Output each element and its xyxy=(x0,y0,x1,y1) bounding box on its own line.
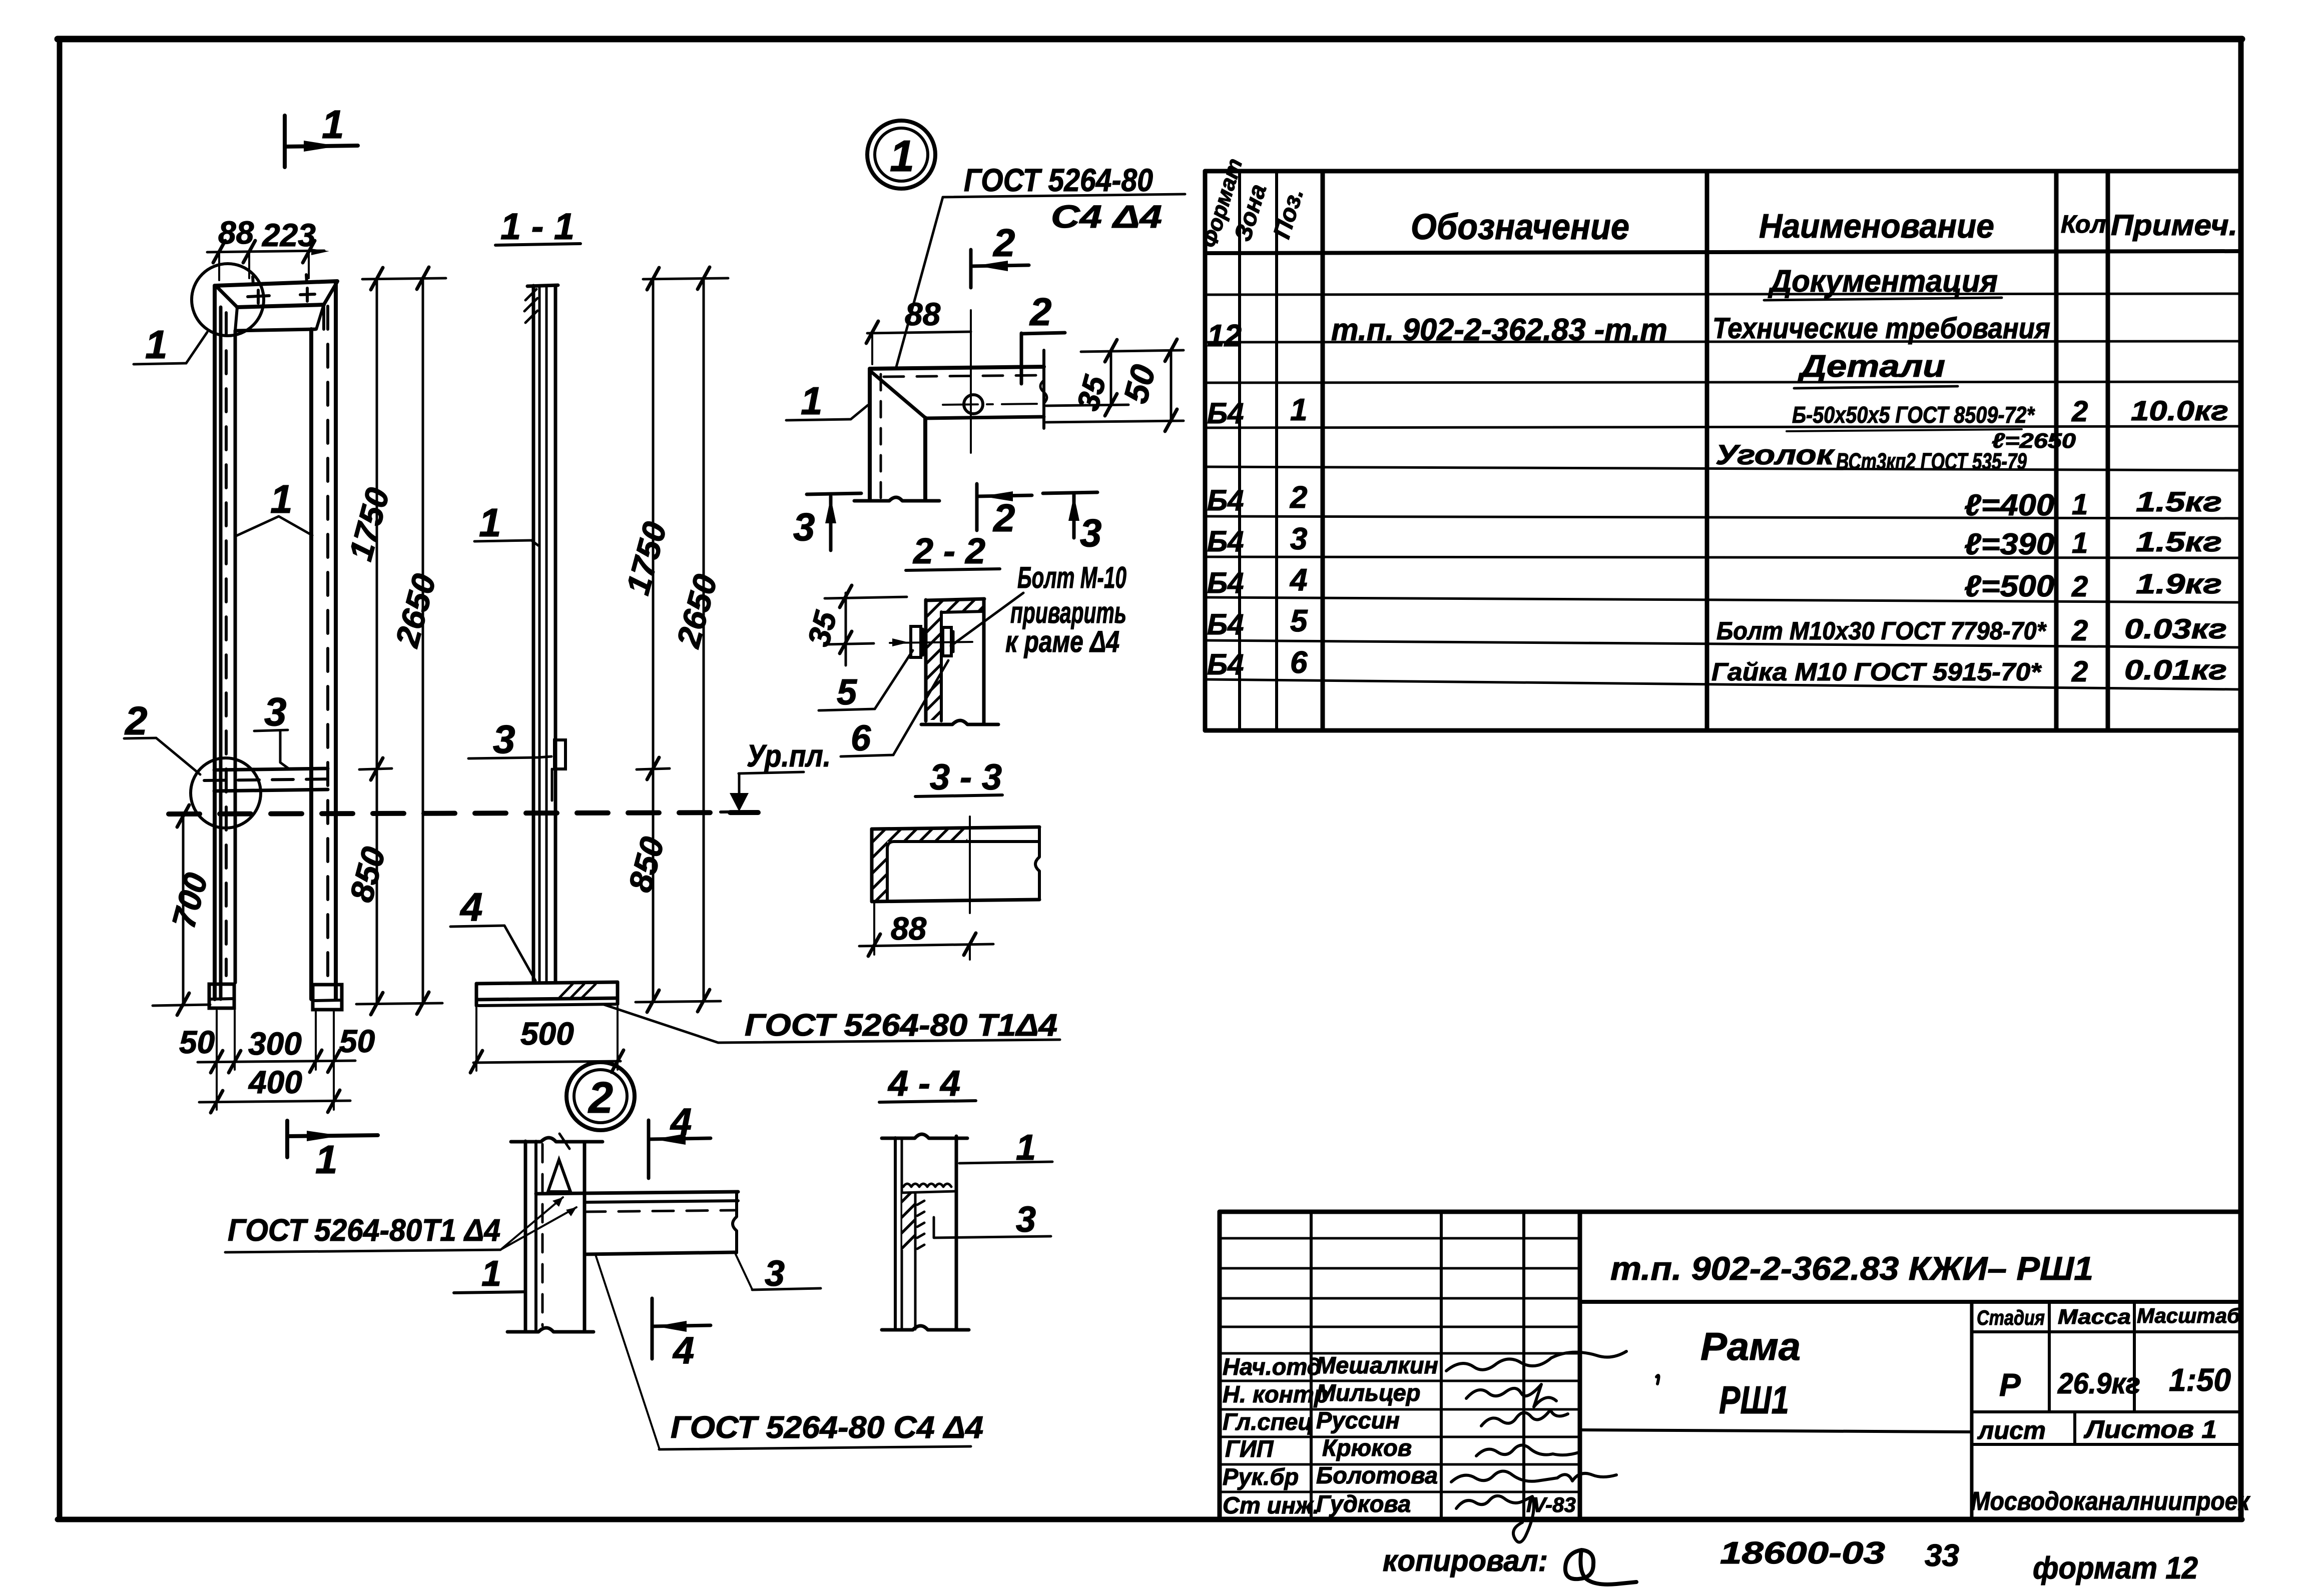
svg-text:2: 2 xyxy=(1290,480,1307,515)
svg-text:1.9кг: 1.9кг xyxy=(2136,568,2222,599)
svg-text:Примеч.: Примеч. xyxy=(2111,209,2237,242)
svg-text:4: 4 xyxy=(672,1329,694,1372)
svg-text:1 - 1: 1 - 1 xyxy=(500,206,574,247)
svg-text:Масштаб: Масштаб xyxy=(2137,1304,2240,1327)
section 4-4: post with angle weld xyxy=(882,1134,969,1330)
svg-text:Гудкова: Гудкова xyxy=(1316,1490,1411,1517)
section 1-1: base plate (item 4) xyxy=(476,982,618,1006)
svg-text:12: 12 xyxy=(1207,319,1242,353)
svg-text:88: 88 xyxy=(905,296,941,332)
svg-text:50: 50 xyxy=(179,1024,215,1060)
svg-text:т.п. 902-2-362.83 КЖИ– РШ1: т.п. 902-2-362.83 КЖИ– РШ1 xyxy=(1610,1250,2093,1287)
front view: top beam (item 1) xyxy=(216,275,337,331)
svg-text:400: 400 xyxy=(248,1064,302,1100)
svg-text:Б4: Б4 xyxy=(1207,397,1244,430)
svg-text:5: 5 xyxy=(837,672,857,712)
detail 1: dimensions 35 / 50 (right) xyxy=(1046,339,1184,431)
front view: detail circle 2 callout xyxy=(124,698,261,828)
level mark Ур.пл. xyxy=(721,739,831,812)
parts table: row TP 902-2-362.83 xyxy=(1207,312,2050,353)
svg-text:Мосводоканалниипроек: Мосводоканалниипроек xyxy=(1971,1487,2250,1516)
svg-text:Наименование: Наименование xyxy=(1759,207,1994,245)
svg-text:ГОСТ 5264-80 Т1Δ4: ГОСТ 5264-80 Т1Δ4 xyxy=(745,1008,1057,1043)
svg-text:ℓ=400: ℓ=400 xyxy=(1964,488,2054,522)
parts table: row item 3 xyxy=(1207,522,2222,561)
section 4-4: title xyxy=(879,1064,976,1104)
svg-text:1: 1 xyxy=(481,1254,501,1294)
svg-text:3: 3 xyxy=(793,505,815,549)
detail 1: weld label GOST 5264-80 C4 D4 xyxy=(896,162,1185,369)
svg-text:88: 88 xyxy=(891,911,927,947)
svg-text:4: 4 xyxy=(459,885,483,929)
title block: central dividers xyxy=(1580,1302,2241,1432)
front view: section mark 1 (top) xyxy=(285,102,358,167)
detail 2: post with beam junction xyxy=(507,1134,738,1332)
svg-text:6: 6 xyxy=(851,718,871,758)
bottom annotation: kopiroval xyxy=(1383,1544,1636,1584)
parts table: row item 6 nut xyxy=(1207,645,2227,688)
section 1-1: label 3 xyxy=(468,717,551,761)
svg-text:2: 2 xyxy=(992,496,1015,540)
svg-text:88: 88 xyxy=(218,215,254,251)
svg-text:1: 1 xyxy=(479,500,501,545)
parts table: rotated column headers xyxy=(1197,156,1309,251)
front view: detail circle 1 callout on corner xyxy=(192,264,264,336)
section 3-3: title xyxy=(915,757,1002,797)
svg-text:1: 1 xyxy=(145,322,168,367)
detail 1: dimension 88 xyxy=(866,296,971,364)
svg-text:Крюков: Крюков xyxy=(1322,1434,1412,1461)
front view: leader label 3 (cross member) xyxy=(254,689,289,769)
svg-text:33: 33 xyxy=(1925,1538,1959,1573)
svg-text:Листов 1: Листов 1 xyxy=(2084,1415,2217,1443)
detail 2: weld label GOST 5264-80 T1 D4 (left) xyxy=(225,1197,577,1252)
svg-text:Б4: Б4 xyxy=(1207,567,1244,599)
front view: section mark 1 (bottom) xyxy=(287,1121,378,1182)
section 4-4: label 3 xyxy=(934,1200,1051,1240)
svg-text:Б4: Б4 xyxy=(1207,648,1244,681)
svg-text:3: 3 xyxy=(1080,511,1101,555)
section 2-2: angle with bolt xyxy=(890,599,998,724)
title block: name Rama RSh1 xyxy=(1700,1324,1801,1422)
svg-text:ГИП: ГИП xyxy=(1225,1435,1274,1462)
parts table: row item 5 bolt xyxy=(1207,604,2227,647)
section 1-1: cross member stub (item 3) xyxy=(552,740,565,801)
detail 1: section line 2-2 vertical xyxy=(970,310,972,453)
svg-text:приварить: приварить xyxy=(1010,596,1126,629)
svg-text:1: 1 xyxy=(801,379,822,423)
title block: stage/mass/scale sub-table xyxy=(1971,1302,2250,1519)
detail 1: circle label xyxy=(867,121,935,189)
front view: dimension 700 (left) xyxy=(153,805,215,1015)
svg-text:1: 1 xyxy=(1290,393,1307,427)
svg-text:Технические требования: Технические требования xyxy=(1712,312,2050,345)
detail 2: section mark 4 (top) xyxy=(649,1101,711,1178)
svg-text:Масса: Масса xyxy=(2058,1305,2131,1328)
section 4-4: label 1 xyxy=(959,1128,1052,1168)
svg-text:ГОСТ 5264-80Т1 Δ4: ГОСТ 5264-80Т1 Δ4 xyxy=(228,1213,500,1248)
svg-text:2: 2 xyxy=(2071,655,2088,688)
section 1-1: dimension 500 xyxy=(470,1007,624,1073)
svg-text:1: 1 xyxy=(2072,527,2088,559)
section 3-3: angle profile xyxy=(872,817,1039,913)
svg-text:50: 50 xyxy=(339,1023,375,1059)
svg-text:Рук.бр: Рук.бр xyxy=(1223,1463,1299,1490)
title block: outer frame and signature grid xyxy=(1220,1212,2241,1519)
svg-text:1.5кг: 1.5кг xyxy=(2136,486,2222,517)
section 1-1: post xyxy=(524,285,558,983)
svg-text:ГОСТ 5264-80: ГОСТ 5264-80 xyxy=(964,162,1153,198)
svg-text:6: 6 xyxy=(1290,645,1308,680)
svg-text:Р: Р xyxy=(1999,1367,2021,1403)
svg-text:Б4: Б4 xyxy=(1207,608,1244,641)
svg-text:1: 1 xyxy=(890,131,914,181)
svg-text:18600-03: 18600-03 xyxy=(1720,1536,1885,1570)
svg-text:т.п. 902-2-362.83 -т.т: т.п. 902-2-362.83 -т.т xyxy=(1331,313,1667,347)
svg-text:Б-50х50х5 ГОСТ 8509-72*: Б-50х50х5 ГОСТ 8509-72* xyxy=(1792,402,2035,428)
front view: dimension 88 / 223 (top) xyxy=(207,215,329,280)
detail 2: label 3 (beam) xyxy=(736,1254,821,1294)
svg-text:2: 2 xyxy=(588,1073,613,1122)
svg-text:к раме Δ4: к раме Δ4 xyxy=(1005,625,1119,658)
svg-text:Кол: Кол xyxy=(2061,210,2106,238)
svg-text:300: 300 xyxy=(248,1026,302,1062)
title block: signature squiggles xyxy=(1446,1351,1659,1542)
svg-text:ℓ=390: ℓ=390 xyxy=(1964,527,2054,561)
svg-text:26.9кг: 26.9кг xyxy=(2057,1367,2140,1400)
svg-text:3: 3 xyxy=(1016,1200,1036,1240)
section 2-2: dimension 35 xyxy=(801,585,907,665)
detail 1: section mark 3 (left) xyxy=(793,493,861,550)
section 1-1: label 4 xyxy=(450,885,535,981)
svg-text:3: 3 xyxy=(264,689,287,734)
front view: leader label 1 (left, to corner circle) xyxy=(134,322,207,367)
svg-text:Руссин: Руссин xyxy=(1316,1407,1400,1433)
detail 1: section mark 3 (right) xyxy=(1043,492,1101,555)
svg-text:Нач.отд: Нач.отд xyxy=(1223,1353,1322,1380)
svg-text:Рама: Рама xyxy=(1700,1324,1801,1368)
svg-text:3: 3 xyxy=(765,1254,785,1294)
detail 2: weld label GOST 5264-80 C4 D4 (bottom) xyxy=(596,1255,983,1449)
front view: leader label 1 (posts) xyxy=(236,477,312,536)
detail 2: section mark 4 (bottom) xyxy=(652,1298,711,1372)
section 2-2: title xyxy=(906,531,1000,571)
section 1-1: label 1 xyxy=(474,500,538,545)
svg-text:1: 1 xyxy=(270,477,293,521)
detail 1: section mark 2 (right) xyxy=(1021,290,1065,384)
detail 2: section mark 1 (left) xyxy=(454,1254,524,1294)
svg-text:Болт М-10: Болт М-10 xyxy=(1017,561,1126,594)
svg-text:РШ1: РШ1 xyxy=(1719,1378,1789,1422)
section 1-1: dimension lines 1750 / 2650 / 850 xyxy=(619,267,728,1012)
svg-text:копировал:: копировал: xyxy=(1383,1544,1548,1577)
svg-text:1: 1 xyxy=(2072,488,2088,521)
ground level dashed line xyxy=(169,813,758,814)
svg-text:2: 2 xyxy=(124,698,148,743)
svg-text:2: 2 xyxy=(2071,570,2088,603)
svg-text:Ур.пл.: Ур.пл. xyxy=(747,739,831,773)
svg-text:ℓ=500: ℓ=500 xyxy=(1964,569,2054,603)
parts table: row item 1 angle 50x50x5 xyxy=(1207,393,2228,474)
parts table: column headers xyxy=(1411,207,2237,247)
svg-text:2 - 2: 2 - 2 xyxy=(912,531,985,571)
parts table: row Documentation header xyxy=(1764,264,2002,300)
svg-text:1.5кг: 1.5кг xyxy=(2136,526,2222,557)
svg-text:2: 2 xyxy=(1029,290,1051,334)
svg-text:3: 3 xyxy=(493,717,515,761)
svg-text:формат 12: формат 12 xyxy=(2033,1551,2198,1585)
svg-text:10.0кг: 10.0кг xyxy=(2131,395,2228,426)
svg-text:Мильцер: Мильцер xyxy=(1316,1379,1420,1406)
section 1-1: title xyxy=(495,206,581,247)
svg-text:0.03кг: 0.03кг xyxy=(2124,613,2227,644)
svg-text:2: 2 xyxy=(2071,614,2088,647)
svg-text:Уголок: Уголок xyxy=(1715,439,1835,470)
section 1-1: weld leader to GOST label xyxy=(604,1005,1060,1043)
section 2-2: label 6 (nut) xyxy=(841,660,948,758)
parts table: row item 2 xyxy=(1207,480,2222,522)
svg-text:Н. контр: Н. контр xyxy=(1223,1381,1328,1407)
svg-text:ℓ=2650: ℓ=2650 xyxy=(1992,429,2076,452)
detail 1: leader label 1 xyxy=(786,379,868,423)
parts table: row item 4 xyxy=(1207,563,2222,603)
svg-text:0.01кг: 0.01кг xyxy=(2124,654,2227,685)
front view: right post foot xyxy=(313,985,342,1010)
svg-text:3 - 3: 3 - 3 xyxy=(930,757,1002,797)
front view: left post foot xyxy=(209,984,234,1008)
svg-text:Мешалкин: Мешалкин xyxy=(1316,1352,1438,1378)
parts table: row Details header xyxy=(1794,349,1958,388)
front view: dimension lines 1750 / 2650 xyxy=(342,267,446,1015)
svg-text:4: 4 xyxy=(670,1101,692,1143)
svg-text:2: 2 xyxy=(2071,395,2088,428)
front view: left post (item 1) xyxy=(215,286,235,999)
parts table: grid xyxy=(1205,171,2241,730)
svg-text:500: 500 xyxy=(520,1016,574,1052)
svg-text:4: 4 xyxy=(1289,563,1307,597)
section 3-3: dimension 88 xyxy=(859,904,993,960)
detail 1: section mark 2 (top) xyxy=(971,221,1029,288)
svg-text:Стадия: Стадия xyxy=(1977,1306,2045,1329)
svg-text:Болт М10х30 ГОСТ 7798-70*: Болт М10х30 ГОСТ 7798-70* xyxy=(1716,617,2047,645)
svg-text:3: 3 xyxy=(1290,522,1307,556)
section 2-2: label 5 (bolt) xyxy=(819,650,913,712)
section 2-2: note Bolt M-10 weld to frame xyxy=(951,561,1126,658)
svg-text:Обозначение: Обозначение xyxy=(1411,207,1629,247)
svg-text:Б4: Б4 xyxy=(1207,484,1244,517)
svg-text:Гайка М10 ГОСТ 5915-70*: Гайка М10 ГОСТ 5915-70* xyxy=(1711,658,2042,686)
front view: cross member (item 3) xyxy=(204,768,334,791)
svg-text:Гл.спец: Гл.спец xyxy=(1223,1408,1313,1435)
svg-text:2: 2 xyxy=(992,221,1015,265)
svg-text:Документация: Документация xyxy=(1768,264,1998,299)
svg-text:С4 Δ4: С4 Δ4 xyxy=(1051,199,1162,235)
detail 1: corner drawing xyxy=(854,350,1047,501)
svg-text:4 - 4: 4 - 4 xyxy=(887,1064,960,1104)
svg-text:1: 1 xyxy=(322,102,344,147)
svg-text:Болотова: Болотова xyxy=(1316,1462,1438,1488)
detail 2: circle label xyxy=(566,1062,635,1130)
front view: bottom dimensions 50 300 50 / 400 xyxy=(179,1011,375,1113)
svg-text:223: 223 xyxy=(262,217,316,253)
svg-text:Ст инж.: Ст инж. xyxy=(1223,1492,1320,1518)
title block: signature rows xyxy=(1223,1352,1576,1518)
detail 1: section mark 2 (bottom) xyxy=(977,484,1032,540)
svg-text:ГОСТ 5264-80 С4 Δ4: ГОСТ 5264-80 С4 Δ4 xyxy=(671,1410,983,1445)
svg-text:лист: лист xyxy=(1977,1416,2046,1444)
svg-text:Б4: Б4 xyxy=(1207,525,1244,558)
front view: right post (item 1) xyxy=(311,282,336,999)
svg-text:Детали: Детали xyxy=(1797,349,1945,384)
svg-text:1:50: 1:50 xyxy=(2169,1362,2231,1398)
svg-text:1: 1 xyxy=(315,1137,338,1182)
svg-text:5: 5 xyxy=(1290,604,1308,638)
